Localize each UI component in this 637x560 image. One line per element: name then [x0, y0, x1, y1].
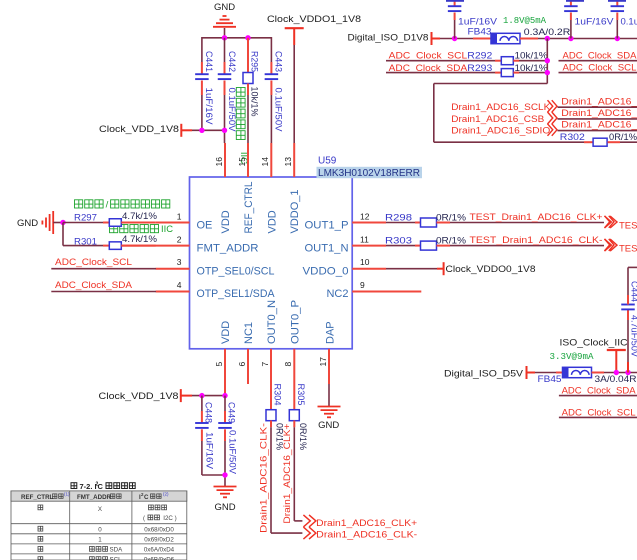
svg-text:ADC_Clock_SCL: ADC_Clock_SCL: [563, 62, 637, 73]
capacitor C443: [265, 37, 284, 143]
svg-text:0.1uF/50V: 0.1uF/50V: [227, 430, 238, 475]
value 0.1uF/50V (C449): [227, 430, 238, 475]
svg-text:OTP_SEL1/SDA: OTP_SEL1/SDA: [197, 288, 276, 300]
pin name OUT0_P (pin8): [289, 300, 301, 344]
svg-text:R297: R297: [74, 213, 97, 224]
svg-text:OE: OE: [197, 219, 213, 231]
svg-text:OUT0_P: OUT0_P: [289, 300, 301, 344]
svg-text:17: 17: [318, 357, 328, 367]
junction rail at C449/pin5: [222, 393, 227, 398]
annotation low-level-enables-IIC (green): [110, 223, 174, 234]
table 7-2 I2C address selection title: [71, 482, 135, 492]
capacitor C448: [195, 396, 225, 475]
svg-text:GND: GND: [214, 502, 235, 513]
svg-text:C443: C443: [273, 51, 284, 72]
svg-text:(: (: [143, 515, 147, 522]
port Clock_VDD_1V8 (upper): [99, 124, 181, 137]
svg-text:0: 0: [98, 526, 102, 533]
resistor R295: [243, 38, 260, 143]
svg-text:NC1: NC1: [243, 322, 255, 344]
svg-text:16: 16: [214, 157, 224, 167]
svg-text:1.8V@5mA: 1.8V@5mA: [503, 16, 547, 26]
refdes sliver C4x1 (clipped top): [446, 0, 464, 2]
svg-text:0x69/0xD2: 0x69/0xD2: [144, 536, 174, 543]
svg-text:GND: GND: [318, 420, 339, 431]
svg-text:R303: R303: [385, 235, 412, 246]
svg-text:R298: R298: [385, 212, 412, 223]
power tap ISO_Clock_IIC: [560, 337, 628, 372]
net label TEST_Drain1_ADC16_CLK+: [470, 212, 603, 223]
svg-text:3: 3: [177, 257, 182, 267]
resistor R293: [386, 63, 547, 77]
pin name REF_CTRL (pin15): [243, 182, 255, 234]
svg-text:C: C: [98, 482, 104, 491]
net label Drain1_ADC16_CLK- (bottom): [316, 530, 417, 541]
port Clock_VDD_1V8 (lower): [99, 389, 181, 402]
pin name VDDO_0: [303, 265, 349, 277]
pin 17 stub (bottom): [328, 349, 330, 384]
net label ADC_Clock_SCL (mid): [389, 51, 468, 62]
net label ADC_Clock_SDA (mid): [389, 63, 468, 74]
part number LMK3H0102V18RERR (highlighted): [317, 167, 423, 179]
pin name DAP (pin17): [325, 321, 337, 344]
svg-text:Digital_ISO_D1V8: Digital_ISO_D1V8: [348, 32, 429, 43]
svg-text:0.1uF/50V: 0.1uF/50V: [273, 88, 284, 133]
svg-text:VDD: VDD: [266, 210, 278, 233]
junction C444: [625, 370, 630, 375]
port Digital_ISO_D5V: [444, 366, 527, 380]
svg-text:VDD: VDD: [220, 321, 232, 344]
net label Drain1_ADC16_CLK+ (bottom): [316, 518, 417, 529]
resistor R302: [560, 132, 637, 146]
svg-text:Drain1_ADC16_SCLK: Drain1_ADC16_SCLK: [451, 102, 551, 113]
power symbol GND (bottom): [214, 502, 235, 513]
pin name OUT0_N (pin7): [266, 300, 278, 344]
svg-text:0.1uF/50V: 0.1uF/50V: [621, 16, 637, 27]
svg-text:ISO_Clock_IIC: ISO_Clock_IIC: [560, 337, 628, 348]
svg-text:Clock_VDDO0_1V8: Clock_VDDO0_1V8: [446, 264, 536, 275]
resistor R297: [63, 213, 156, 227]
svg-text:4.7k/1%: 4.7k/1%: [122, 211, 158, 222]
value 0R/1% (R304): [274, 423, 285, 451]
net label Drain1_ADC16_CSB (right): [558, 108, 637, 119]
pin name OE: [197, 219, 213, 231]
pin number 11: [360, 234, 369, 244]
svg-text:Clock_VDD_1V8: Clock_VDD_1V8: [99, 124, 179, 135]
off-page label TEST... (right edge, row 2): [619, 244, 637, 255]
svg-text:OUT0_N: OUT0_N: [266, 300, 278, 344]
pin name OTP_SEL0/SCL: [197, 265, 275, 277]
wire ADC_Clock_SCL (bottom right): [559, 416, 637, 418]
value 0R/1% (R298): [436, 212, 467, 223]
svg-text:FMT_ADDR: FMT_ADDR: [77, 494, 112, 501]
pin name VDDO_1 (pin13): [289, 190, 301, 234]
value 0.1uF (C4x3, clipped): [621, 16, 637, 27]
junction at C4x2: [568, 36, 573, 41]
value 3A/0.04R (FB45): [595, 374, 637, 385]
svg-text:R302: R302: [560, 132, 585, 143]
pin number 9: [360, 280, 365, 290]
value 0.1uF/50V (C443): [273, 88, 284, 133]
port Digital_ISO_D1V8: [348, 32, 432, 45]
off-page connector chevron (CLK- row): [605, 239, 618, 251]
svg-text:12: 12: [360, 211, 370, 221]
value 10k/1% (R293): [515, 63, 549, 74]
annotation 3.3V@9mA (green): [550, 352, 595, 362]
table header REF_CTRL: [21, 492, 70, 502]
svg-text:/: /: [106, 200, 109, 211]
wire GND stem (top): [224, 28, 226, 38]
svg-text:R305: R305: [295, 384, 306, 406]
svg-text:1uF/16V: 1uF/16V: [203, 88, 214, 126]
junction rail at C448: [199, 393, 204, 398]
wire FB43 to caps: [520, 38, 637, 40]
pin number 8: [283, 362, 293, 367]
svg-text:1uF/16V: 1uF/16V: [575, 16, 615, 27]
value 10k/1% (R295): [249, 87, 260, 118]
svg-text:FB45: FB45: [538, 374, 562, 385]
svg-text:OUT1_P: OUT1_P: [305, 219, 349, 231]
table 7-2 grid: [11, 491, 187, 560]
svg-text:0x68/0xD0: 0x68/0xD0: [144, 526, 174, 533]
svg-text:DAP: DAP: [325, 321, 337, 344]
pin 6 stub (bottom): [247, 349, 249, 384]
pin number 10: [360, 257, 370, 267]
svg-text:4.7k/1%: 4.7k/1%: [122, 234, 158, 245]
net label ADC_Clock_SCL (left): [55, 257, 132, 268]
svg-text:0x6A/0xD4: 0x6A/0xD4: [144, 547, 175, 554]
svg-text:TEST_Drain1_ADC16_CLK-: TEST_Drain1_ADC16_CLK-: [470, 235, 603, 246]
resistor R303: [385, 235, 604, 250]
svg-text:0.1uF/50V: 0.1uF/50V: [226, 88, 237, 133]
off-page connector chevron (Drain1_ADC16_SDIO): [548, 124, 558, 136]
power symbol GND (top): [214, 2, 235, 13]
pin number 16: [214, 157, 224, 167]
svg-text:7-2. I: 7-2. I: [80, 482, 97, 491]
pin number 6: [237, 362, 247, 367]
svg-text:6: 6: [237, 362, 247, 367]
power tap Clock_VDDO1_1V8: [267, 14, 361, 143]
svg-text:C444: C444: [629, 281, 637, 302]
table row 2 (low / 0 / 0x68): [38, 526, 174, 533]
svg-text:4.7uF/50V: 4.7uF/50V: [629, 315, 637, 358]
off-page connector chevron (Drain1_ADC16_SCLK): [548, 100, 558, 112]
table header FMT_ADDR: [77, 494, 121, 501]
junction C448/C449 gnd: [222, 472, 227, 477]
value 1uF/16V (C441): [203, 88, 214, 126]
junction R293 tap: [545, 70, 550, 75]
svg-text:Clock_VDDO1_1V8: Clock_VDDO1_1V8: [267, 14, 361, 25]
pin name FMT_ADDR: [197, 242, 259, 254]
resistor R304: [266, 384, 302, 534]
junction VDD rail at C441: [199, 128, 204, 133]
net label Drain1_ADC16_SDIO: [451, 126, 550, 137]
net label ADC_Clock_SDA (bottom right): [562, 386, 637, 397]
pin number 5: [214, 362, 224, 367]
svg-text:10k/1%: 10k/1%: [249, 87, 260, 118]
svg-text:ADC_Clock_SDA: ADC_Clock_SDA: [563, 50, 637, 61]
junction at C4x1 (1uF/16V): [452, 36, 457, 41]
svg-text:1: 1: [177, 211, 182, 221]
pin 16 stub (top): [224, 143, 226, 177]
pin 10 stub: [352, 268, 386, 270]
value 4.7k/1% (R297): [122, 211, 158, 222]
wire Digital_ISO_D1V8 to FB43: [432, 38, 492, 40]
svg-text:Digital_ISO_D5V: Digital_ISO_D5V: [444, 369, 524, 380]
junction R292 tap: [545, 58, 550, 63]
svg-text:NC2: NC2: [326, 288, 348, 300]
svg-text:ADC_Clock_SDA: ADC_Clock_SDA: [55, 280, 133, 291]
pin number 15: [237, 157, 247, 167]
wire ADC_Clock_SDA to pin 4: [51, 291, 156, 293]
pin 3 stub: [156, 268, 190, 270]
svg-text:3.3V@9mA: 3.3V@9mA: [550, 352, 595, 362]
svg-text:3A/0.04R: 3A/0.04R: [595, 374, 637, 385]
svg-text:X: X: [98, 506, 102, 513]
capacitor C4x1 (top, partial): [448, 0, 462, 39]
ground bars (pin17 GND): [318, 384, 341, 417]
svg-text:TEST_Drain1_ADC16_CLK-: TEST_Drain1_ADC16_CLK-: [619, 244, 637, 255]
svg-text:REF_CTRL: REF_CTRL: [243, 182, 255, 234]
pin 4 stub: [156, 291, 190, 293]
pin name VDD (pin16): [220, 210, 232, 233]
ground bars (left GND): [42, 211, 53, 234]
svg-text:ADC_Clock_SCL: ADC_Clock_SCL: [55, 257, 132, 268]
pin name OTP_SEL1/SDA: [197, 288, 276, 300]
svg-text:2: 2: [96, 482, 99, 488]
pin number 2: [177, 234, 182, 244]
table row 1 (high / X / not applicable): [38, 505, 177, 522]
pin name VDD (pin5): [220, 321, 232, 344]
wire VDD rail (lower): [181, 395, 225, 397]
svg-text:Drain1_ADC16_: Drain1_ADC16_: [561, 120, 637, 131]
svg-text:C441: C441: [203, 51, 214, 72]
off-page connector chevron (CLK+ bottom): [303, 515, 316, 527]
ferrite bead FB43: [468, 27, 521, 44]
svg-text:VDD: VDD: [220, 210, 232, 233]
svg-text:R292: R292: [467, 51, 492, 62]
resistor R301: [74, 236, 156, 249]
wire GND bus over C441-C443: [202, 37, 272, 39]
svg-text:OUT1_N: OUT1_N: [305, 242, 349, 254]
junction VDD rail at C442: [222, 128, 227, 133]
pin number 17: [318, 357, 328, 367]
pin 1 stub: [156, 222, 190, 224]
svg-text:0x6B/0xD6: 0x6B/0xD6: [144, 557, 175, 560]
power symbol GND (left): [17, 218, 38, 229]
svg-text:10k/1%: 10k/1%: [515, 51, 549, 62]
svg-text:REF_CTRL: REF_CTRL: [21, 494, 54, 501]
refdes sliver C4x3 (clipped top): [608, 0, 626, 2]
svg-text:15: 15: [237, 157, 247, 167]
pin 12 stub: [352, 222, 386, 224]
table row 4 (low / connect to SDA / 0x6A): [38, 547, 175, 554]
net label ADC_Clock_SCL (right of R293): [559, 62, 637, 73]
svg-text:2: 2: [177, 234, 182, 244]
junction at R292 feed: [545, 36, 550, 41]
svg-text:Drain1_ADC16_CLK+: Drain1_ADC16_CLK+: [316, 518, 417, 529]
svg-text:Drain1_ADC16_CLK-: Drain1_ADC16_CLK-: [259, 423, 270, 533]
ground bars (bottom GND): [214, 487, 237, 498]
svg-text:1uF/16V: 1uF/16V: [204, 432, 215, 470]
resistor R292: [386, 51, 547, 65]
off-page connector chevron (CLK+ row): [605, 216, 618, 228]
pin 15 stub (top): [247, 143, 249, 177]
pin number 7: [260, 362, 270, 367]
rotated net label Drain1_ADC16_CLK- (pin7): [259, 423, 270, 533]
svg-text:R293: R293: [467, 63, 492, 74]
svg-text:10k/1%: 10k/1%: [515, 63, 549, 74]
pin 11 stub: [352, 245, 386, 247]
wire GND to junction: [53, 222, 63, 224]
junction on GND bus at R295: [245, 35, 250, 40]
svg-text:TEST_Drain1_ADC16_CLK+: TEST_Drain1_ADC16_CLK+: [619, 221, 637, 232]
svg-text:Clock_VDD_1V8: Clock_VDD_1V8: [99, 391, 179, 402]
rotated net label Drain1_ADC16_CLK+ (pin8): [282, 423, 293, 523]
svg-text:Drain1_ADC16_CLK+: Drain1_ADC16_CLK+: [282, 423, 293, 523]
svg-text:LMK3H0102V18RERR: LMK3H0102V18RERR: [318, 168, 420, 179]
svg-text:10: 10: [360, 257, 370, 267]
svg-text:Drain1_ADC16_CLK-: Drain1_ADC16_CLK-: [316, 530, 417, 541]
junction on GND bus at C442: [222, 35, 227, 40]
value 0R/1% (R303): [436, 235, 467, 246]
net label ADC_Clock_SDA (right of R292): [559, 50, 637, 61]
svg-text:1: 1: [98, 536, 102, 543]
table header I2C address: [139, 492, 169, 502]
op-amp U59 LMK3H0102V18RERR body: [190, 177, 353, 349]
net label Drain1_ADC16_SDIO (right): [558, 120, 637, 131]
value 0R/1% (R305): [297, 423, 308, 451]
svg-text:5: 5: [214, 362, 224, 367]
svg-text:7: 7: [260, 362, 270, 367]
value 0.1uF/50V (C442): [226, 88, 237, 133]
capacitor C444: [621, 267, 637, 372]
svg-text:R295: R295: [249, 51, 260, 72]
table row 3 (low / 1 / 0x69): [38, 536, 174, 543]
svg-text:(2): (2): [163, 492, 169, 497]
capacitor C442: [218, 38, 237, 143]
power symbol GND (pin17): [318, 420, 339, 431]
svg-text:Drain1_ADC16_: Drain1_ADC16_: [561, 96, 637, 107]
value 0.3A/0.2R (FB43): [524, 27, 571, 38]
refdes sliver C4x2 (clipped top): [566, 0, 584, 2]
value 4.7uF/50V (C444): [629, 315, 637, 358]
pin number 13: [283, 157, 293, 167]
svg-text:C448: C448: [203, 402, 214, 423]
svg-text:R301: R301: [74, 236, 97, 247]
capacitor C449: [218, 396, 236, 486]
resistor R305: [289, 384, 306, 521]
off-page label TEST... (right edge, row 1): [619, 221, 637, 232]
pin number 12: [360, 211, 370, 221]
svg-text:TEST_Drain1_ADC16_CLK+: TEST_Drain1_ADC16_CLK+: [470, 212, 603, 223]
pin name NC1 (pin6): [243, 322, 255, 344]
off-page connector chevron (Drain1_ADC16_CSB): [548, 112, 558, 124]
junction ISO tap: [614, 370, 619, 375]
annotation low-level-enable-IIC (vertical green): [236, 88, 249, 165]
svg-text:C449: C449: [226, 402, 237, 423]
svg-text:IIC: IIC: [161, 223, 173, 234]
capacitor C4x2 (top, partial): [564, 0, 578, 39]
ferrite bead FB45: [527, 367, 637, 385]
svg-text:13: 13: [283, 157, 293, 167]
junction node at R297/R301: [60, 220, 65, 225]
ground bars (top GND): [213, 16, 236, 27]
svg-text:C: C: [144, 494, 149, 501]
net label Drain1_ADC16_SCLK (right): [558, 96, 637, 107]
svg-text:0R/1%: 0R/1%: [436, 235, 467, 246]
svg-text:OTP_SEL0/SCL: OTP_SEL0/SCL: [197, 265, 275, 277]
wire ADC_Clock_SCL to pin 3: [51, 268, 156, 270]
pin 8 stub (bottom): [293, 349, 295, 410]
pin number 4: [177, 280, 182, 290]
svg-text:SDA: SDA: [110, 547, 124, 554]
svg-text:Drain1_ADC16_SDIO: Drain1_ADC16_SDIO: [451, 126, 550, 137]
value 1uF/16V (C4x1): [458, 16, 498, 27]
pin name NC2: [326, 288, 348, 300]
svg-text:Drain1_ADC16_: Drain1_ADC16_: [561, 108, 637, 119]
net label Drain1_ADC16_SCLK: [451, 102, 551, 113]
value 1uF/16V (C4x2): [575, 16, 615, 27]
annotation 1.8V@5mA (green): [503, 16, 547, 26]
resistor R298: [385, 212, 604, 227]
pin 2 stub: [121, 245, 189, 247]
pin 5 stub (bottom): [224, 349, 226, 396]
svg-text:R304: R304: [272, 384, 283, 406]
pin 14 stub (top): [270, 143, 272, 177]
wire ADC_Clock_SDA (bottom right): [559, 395, 637, 397]
svg-text:FMT_ADDR: FMT_ADDR: [197, 242, 259, 254]
net label ADC_Clock_SDA (left): [55, 280, 133, 291]
port Clock_VDDO0_1V8: [444, 262, 536, 275]
svg-text:8: 8: [283, 362, 293, 367]
svg-text:GND: GND: [17, 218, 38, 229]
svg-text:11: 11: [360, 234, 369, 244]
svg-text:9: 9: [360, 280, 365, 290]
wire junction to R301: [63, 223, 103, 246]
svg-text:VDDO_1: VDDO_1: [289, 190, 301, 234]
value 1uF/16V (C448): [204, 432, 215, 470]
wire pin 10 to port: [386, 268, 444, 270]
capacitor C441: [195, 37, 214, 130]
pin name OUT1_N: [305, 242, 349, 254]
off-page connector chevron (CLK- bottom): [303, 527, 316, 539]
svg-text:VDDO_0: VDDO_0: [303, 265, 349, 277]
capacitor C4x3 (top, partial): [611, 0, 625, 39]
annotation low-level/float-enables-output (green): [75, 200, 170, 211]
wire VDD rail (upper): [181, 129, 224, 131]
pin name OUT1_P: [305, 219, 349, 231]
pin number 3: [177, 257, 182, 267]
pin name VDD (pin14): [266, 210, 278, 233]
svg-text:C442: C442: [226, 51, 237, 72]
svg-text:FB43: FB43: [468, 27, 492, 38]
svg-text:0R/1%: 0R/1%: [436, 212, 467, 223]
net label ADC_Clock_SCL (bottom right): [562, 408, 636, 419]
pin 9 stub (NC2): [352, 291, 421, 293]
wire R292/R293 junction drop: [434, 39, 584, 143]
svg-text:I2C ): I2C ): [162, 515, 177, 522]
pin 7 stub (bottom): [270, 349, 272, 410]
svg-text:(1): (1): [64, 492, 70, 497]
pin number 14: [260, 157, 270, 167]
svg-text:SCL: SCL: [110, 557, 123, 560]
svg-text:Drain1_ADC16_CSB: Drain1_ADC16_CSB: [451, 114, 544, 125]
junction at C4x3: [615, 36, 620, 41]
svg-text:GND: GND: [214, 2, 235, 13]
svg-text:0R/1%: 0R/1%: [297, 423, 308, 451]
value 4.7k/1% (R301): [122, 234, 158, 245]
